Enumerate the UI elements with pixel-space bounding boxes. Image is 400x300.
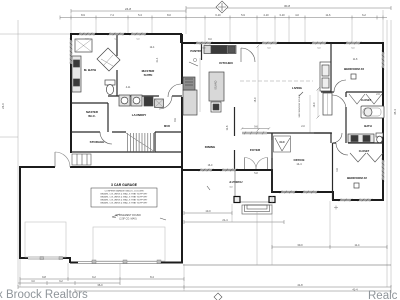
window dining south 1 xyxy=(199,169,213,172)
cased opening living to foyer xyxy=(242,132,267,135)
svg-text:15-0: 15-0 xyxy=(254,97,257,102)
garage car bay outline 2 xyxy=(93,227,165,261)
dim line overall bottom xyxy=(18,285,391,289)
bedroom2 ceiling symbol xyxy=(354,183,359,188)
svg-text:x Broock Realtors: x Broock Realtors xyxy=(0,289,88,300)
svg-text:21-4: 21-4 xyxy=(222,218,228,222)
window kitchen top xyxy=(195,42,212,45)
pantry walls xyxy=(201,43,203,60)
garage entry door arc xyxy=(55,152,70,167)
wall master south xyxy=(108,95,182,97)
window living top 2 xyxy=(311,42,327,45)
setback line left xyxy=(0,33,71,35)
svg-text:MUD: MUD xyxy=(164,124,170,128)
svg-text:CLOSET: CLOSET xyxy=(361,98,372,102)
bath tub xyxy=(361,106,384,118)
svg-text:BEDROOM #3: BEDROOM #3 xyxy=(344,67,364,71)
dimension extension drops top xyxy=(71,10,383,43)
wall left wing east xyxy=(181,34,183,84)
svg-text:30-8: 30-8 xyxy=(284,4,290,8)
window master top 3 xyxy=(130,33,147,36)
porch column right xyxy=(269,197,275,203)
svg-text:30-0: 30-0 xyxy=(297,243,303,247)
svg-text:BATH: BATH xyxy=(364,124,372,128)
bottom marker diamond xyxy=(214,293,222,300)
garage landing steps xyxy=(72,154,91,165)
dimension line top tier2 xyxy=(60,16,387,20)
svg-text:STORAGE: STORAGE xyxy=(90,140,105,144)
right margin extension lines xyxy=(386,20,388,287)
window bed3 east xyxy=(382,51,385,69)
svg-text:4-11: 4-11 xyxy=(126,86,131,89)
garage droppers xyxy=(20,259,184,291)
svg-text:BEAMS, COLUMNS & WALLS THAT SU: BEAMS, COLUMNS & WALLS THAT SUPPORT xyxy=(100,199,148,202)
svg-text:11-6: 11-6 xyxy=(225,125,229,131)
exterior wall step xyxy=(180,34,182,43)
kitchen island xyxy=(209,72,224,112)
svg-text:13-0: 13-0 xyxy=(205,209,211,213)
office door arc xyxy=(332,133,342,143)
svg-text:14-4: 14-4 xyxy=(296,162,302,166)
wall office east xyxy=(330,133,332,143)
porch steps xyxy=(242,205,272,214)
svg-text:6-2: 6-2 xyxy=(362,13,366,17)
svg-text:CLOSET: CLOSET xyxy=(359,149,370,153)
svg-text:8-4: 8-4 xyxy=(150,275,154,279)
wall bed3 west xyxy=(330,43,332,92)
window bed2 south 2 xyxy=(358,199,372,202)
bath vanity two sinks xyxy=(348,134,374,143)
french doors foyer xyxy=(245,158,268,170)
garage west wall xyxy=(19,166,21,259)
shower master bath xyxy=(75,39,92,52)
svg-text:(2.5F CO. MAX): (2.5F CO. MAX) xyxy=(119,218,136,221)
corridor door arc xyxy=(332,95,346,109)
window living top 1 xyxy=(261,42,278,45)
window master top 2 xyxy=(108,33,125,36)
north arrow diamond xyxy=(216,1,228,13)
dim line garage 9-8 9-2 xyxy=(20,277,184,281)
window bath west xyxy=(70,39,73,65)
vanity master bath xyxy=(72,56,81,92)
wall office west xyxy=(271,133,273,192)
svg-text:24-8: 24-8 xyxy=(125,7,131,11)
kitchen door arc xyxy=(241,48,255,62)
kitchen west counter xyxy=(183,77,197,115)
svg-text:FOYER: FOYER xyxy=(250,148,261,152)
dim line small left xyxy=(18,281,120,285)
svg-text:SUITE: SUITE xyxy=(144,73,153,77)
bedroom3 ceiling symbol xyxy=(351,74,356,79)
window office south 2 xyxy=(302,191,318,194)
bedroom3 builtin closet upper xyxy=(320,62,331,91)
svg-text:SEE WINDOW SCHED: SEE WINDOW SCHED xyxy=(299,94,301,117)
svg-text:10-0: 10-0 xyxy=(313,102,316,107)
svg-text:E-PORCH: E-PORCH xyxy=(230,180,244,184)
window bed2 south 1 xyxy=(339,199,352,202)
garage car bay outline 1 xyxy=(25,222,66,257)
wall left wing south xyxy=(71,151,182,153)
svg-text:9-8: 9-8 xyxy=(42,275,46,279)
ceiling break dashed living xyxy=(240,80,313,82)
exterior wall west xyxy=(70,33,72,153)
wall storage north xyxy=(71,131,182,133)
garage door opening 2 xyxy=(78,262,161,264)
svg-text:6-10: 6-10 xyxy=(215,13,221,17)
exterior wall right xyxy=(382,42,384,201)
interior dim line living east xyxy=(310,88,320,134)
toilet master bath xyxy=(105,80,115,95)
bath toilet xyxy=(376,133,383,143)
svg-text:Realc: Realc xyxy=(368,290,398,300)
window master top 1 xyxy=(78,33,96,36)
garage south wall middle step xyxy=(63,257,78,263)
svg-text:LIVING: LIVING xyxy=(292,86,303,90)
svg-text:36-0: 36-0 xyxy=(97,283,103,287)
wall foyer east xyxy=(271,133,273,170)
svg-text:4-0: 4-0 xyxy=(295,13,299,17)
dropper x330 xyxy=(329,201,331,247)
wall dining east xyxy=(234,107,236,170)
garage note box xyxy=(91,188,157,207)
garage south wall right corner xyxy=(161,262,183,264)
garage door opening 1 xyxy=(28,257,63,259)
dim line lower right xyxy=(75,289,391,293)
window bed2 east xyxy=(382,159,385,181)
svg-text:16-0: 16-0 xyxy=(208,164,213,167)
door arc master xyxy=(168,84,181,97)
porch column left xyxy=(234,197,240,203)
corner shower diamond xyxy=(97,48,120,71)
hall cabinet xyxy=(155,99,164,108)
window bed3 top xyxy=(345,42,361,45)
svg-text:5-3: 5-3 xyxy=(138,13,142,17)
garage east wall xyxy=(181,166,183,263)
svg-text:45-4: 45-4 xyxy=(393,109,397,115)
svg-text:W.I.C.: W.I.C. xyxy=(88,114,96,118)
bed2 door arc xyxy=(336,143,348,155)
living interior dim line xyxy=(257,45,260,132)
kitchen dim drop line xyxy=(199,58,201,112)
garage north wall xyxy=(20,166,182,168)
dim line 21-4 xyxy=(184,220,284,224)
wall office north xyxy=(267,132,331,134)
svg-text:CLO: CLO xyxy=(279,141,284,144)
wall bath east upper xyxy=(116,34,118,96)
svg-text:KITCHEN: KITCHEN xyxy=(219,61,232,65)
garage door jamb marks left xyxy=(40,257,44,260)
svg-text:OFFICE: OFFICE xyxy=(294,158,305,162)
dim line foyer opening xyxy=(241,127,270,129)
garage south wall left corner xyxy=(20,257,28,259)
tick cross xyxy=(334,206,338,210)
exterior wall top right xyxy=(181,42,383,44)
wall bath south bed2 north xyxy=(333,142,383,144)
dropper x232 xyxy=(231,204,233,222)
wall hall east xyxy=(345,92,347,143)
driveway edge line left xyxy=(0,136,18,138)
door arc hall to laundry xyxy=(159,96,172,109)
wall bed3 south xyxy=(321,91,383,93)
office closet xyxy=(274,136,291,152)
svg-text:BEDROOM #2: BEDROOM #2 xyxy=(347,176,367,180)
wall stairs east xyxy=(154,132,156,152)
svg-text:4-10: 4-10 xyxy=(263,13,269,17)
svg-text:5-9: 5-9 xyxy=(241,13,245,17)
svg-text:7-4: 7-4 xyxy=(110,13,114,17)
svg-text:11-6: 11-6 xyxy=(326,13,332,17)
svg-text:CONFIRM GARAGE WALLS, COLUMN: CONFIRM GARAGE WALLS, COLUMN xyxy=(105,190,144,193)
svg-text:BEAMS, COLUMNS & WALLS THAT SU: BEAMS, COLUMNS & WALLS THAT SUPPORT xyxy=(100,196,148,199)
dim line mid right xyxy=(272,245,387,249)
closet bed2 chevron doors xyxy=(350,153,383,162)
dryer unit xyxy=(144,97,153,106)
svg-text:11-8: 11-8 xyxy=(353,58,358,61)
window office south 1 xyxy=(280,191,296,194)
closet bed3 chevron doors xyxy=(349,94,382,104)
svg-text:DINING: DINING xyxy=(205,145,216,149)
wall office north east part xyxy=(314,132,332,134)
svg-text:BEAMS, COLUMNS & WALLS THAT SU: BEAMS, COLUMNS & WALLS THAT SUPPORT xyxy=(100,193,148,196)
exterior wall dining south xyxy=(182,169,273,171)
storage door arc xyxy=(100,132,112,144)
svg-text:ISLAND: ISLAND xyxy=(215,80,218,89)
exterior wall step office xyxy=(332,192,334,201)
exterior wall porch east xyxy=(271,169,273,193)
kitchen top counter xyxy=(204,46,236,54)
svg-text:8-9: 8-9 xyxy=(81,13,85,17)
exterior wall office south xyxy=(272,191,334,193)
dropper porch steps xyxy=(256,212,258,265)
washer dryer xyxy=(119,95,142,106)
svg-text:3 CAR GARAGE: 3 CAR GARAGE xyxy=(111,183,138,187)
bed3 door arc xyxy=(334,80,346,92)
svg-text:12-4: 12-4 xyxy=(150,46,155,49)
svg-text:PANTRY: PANTRY xyxy=(190,49,201,53)
dimension line top tier1 right xyxy=(186,6,391,10)
pantry door diagonal xyxy=(189,62,198,66)
svg-text:BEAMS, COLUMNS & WALLS THAT SU: BEAMS, COLUMNS & WALLS THAT SUPPORT xyxy=(100,202,148,205)
exterior wall top left wing xyxy=(71,33,182,35)
patio line east of garage xyxy=(183,264,391,266)
stairs treads xyxy=(126,133,155,152)
builtin cabinet lower xyxy=(323,93,332,115)
window dining south 2 xyxy=(221,169,237,172)
svg-text:21-4: 21-4 xyxy=(156,57,159,62)
svg-text:LAUNDRY: LAUNDRY xyxy=(132,113,147,117)
svg-text:41-4: 41-4 xyxy=(352,288,358,292)
svg-text:11-4: 11-4 xyxy=(355,243,361,247)
dimension line top tier1 left xyxy=(71,9,186,13)
svg-text:M. BATH: M. BATH xyxy=(84,68,96,72)
wall wic laundry divide xyxy=(107,103,109,132)
porch outline xyxy=(235,171,272,202)
svg-text:24-0: 24-0 xyxy=(1,103,5,109)
svg-text:3-10: 3-10 xyxy=(279,13,285,17)
dim line porch 13-0 xyxy=(184,211,232,215)
svg-text:41-8: 41-8 xyxy=(297,283,303,287)
wall bath south xyxy=(71,102,108,104)
exterior wall bedroom2 south xyxy=(333,199,384,201)
svg-text:9-2: 9-2 xyxy=(92,275,96,279)
garage door jamb marks right xyxy=(92,260,96,264)
left margin extension line xyxy=(17,20,19,286)
wall bed2 west xyxy=(332,143,334,200)
dropper x272 xyxy=(271,196,273,265)
svg-text:8-0: 8-0 xyxy=(167,13,171,17)
